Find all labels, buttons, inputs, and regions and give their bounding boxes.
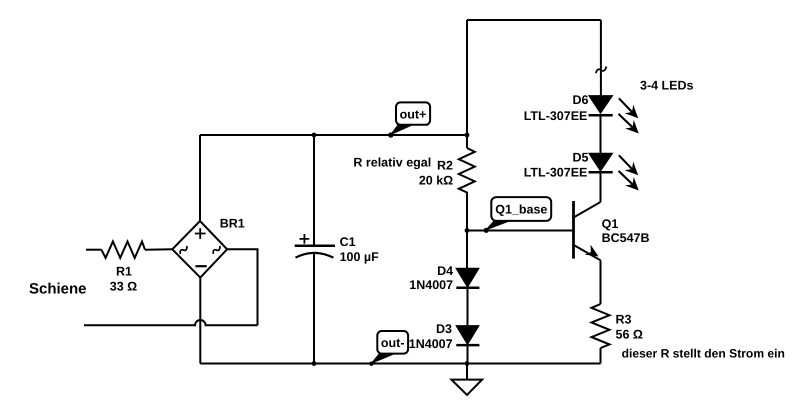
diode D4	[409, 264, 479, 292]
junction out+ tap	[388, 132, 393, 137]
text dieser R stellt den Strom ein	[622, 346, 785, 360]
wire base node to D4	[466, 231, 468, 269]
wire bridge bottom down	[199, 278, 201, 364]
svg-text:LTL-307EE: LTL-307EE	[524, 109, 588, 123]
wire input top stub	[86, 249, 101, 251]
wire bridge right vertex down	[227, 249, 257, 325]
wire bridge top to rail	[199, 135, 201, 221]
svg-text:out-: out-	[381, 336, 405, 350]
wire top rail 2	[467, 19, 601, 21]
wire D5 to Q1 collector	[600, 172, 602, 202]
svg-text:dieser R stellt den Strom ein: dieser R stellt den Strom ein	[622, 346, 785, 360]
wire R3 to bottom rail	[600, 348, 602, 364]
LED D6	[524, 93, 638, 133]
wire Q1 emitter to R3	[600, 260, 602, 304]
junction base node	[465, 228, 470, 233]
wire break mark	[595, 67, 607, 74]
svg-text:Schiene: Schiene	[29, 281, 87, 298]
wire base node to Q1 base	[467, 230, 574, 232]
svg-text:Q1: Q1	[602, 217, 619, 231]
junction C1 bottom	[312, 361, 317, 366]
svg-text:BC547B: BC547B	[602, 231, 650, 245]
wire R1 to bridge	[145, 248, 172, 250]
callout Q1_base	[484, 197, 552, 233]
svg-text:R relativ egal: R relativ egal	[353, 156, 431, 170]
wire D6 to D5	[600, 115, 602, 154]
svg-text:C1: C1	[340, 235, 356, 249]
node Schiene label	[29, 281, 87, 298]
svg-text:D4: D4	[437, 264, 453, 278]
svg-text:out+: out+	[400, 107, 427, 121]
capacitor C1	[295, 135, 379, 364]
LED D5	[524, 151, 638, 190]
svg-text:100 µF: 100 µF	[340, 250, 380, 264]
junction C1 top	[312, 133, 317, 138]
wire R2 column top	[466, 20, 468, 148]
svg-text:33 Ω: 33 Ω	[110, 279, 137, 293]
resistor R1	[101, 242, 145, 294]
wire bottom input with hop	[84, 320, 258, 325]
wire D3 to bottom rail	[467, 345, 469, 363]
svg-text:Q1_base: Q1_base	[495, 203, 547, 217]
callout out-	[369, 331, 408, 366]
bridge rectifier BR1	[172, 216, 244, 277]
wire R2 to base node	[466, 196, 468, 231]
text R relativ egal	[353, 156, 431, 170]
svg-text:D6: D6	[573, 93, 589, 107]
svg-text:1N4007: 1N4007	[409, 278, 453, 292]
ground	[451, 364, 482, 396]
wire LED string top	[600, 20, 602, 96]
junction R2 top rail	[465, 133, 470, 138]
svg-text:R1: R1	[116, 264, 132, 278]
svg-text:BR1: BR1	[220, 216, 245, 230]
svg-text:20 kΩ: 20 kΩ	[419, 174, 453, 188]
svg-text:R2: R2	[437, 159, 453, 173]
resistor R2	[419, 148, 475, 196]
svg-text:D3: D3	[436, 322, 452, 336]
svg-text:56 Ω: 56 Ω	[616, 327, 643, 341]
svg-text:LTL-307EE: LTL-307EE	[524, 166, 588, 180]
svg-text:R3: R3	[616, 312, 632, 326]
wire bottom rail out- net	[200, 363, 600, 365]
transistor Q1	[574, 201, 650, 260]
diode D3	[409, 322, 480, 351]
svg-text:3-4 LEDs: 3-4 LEDs	[640, 78, 694, 92]
junction diode chain bottom	[465, 361, 470, 366]
wire D4 to D3	[467, 288, 469, 326]
callout out+	[388, 102, 430, 137]
resistor R3	[592, 304, 643, 348]
text 3-4 LEDs	[640, 78, 694, 92]
svg-text:D5: D5	[573, 151, 589, 165]
wire top rail out+ net	[200, 134, 467, 136]
svg-text:1N4007: 1N4007	[409, 337, 453, 351]
